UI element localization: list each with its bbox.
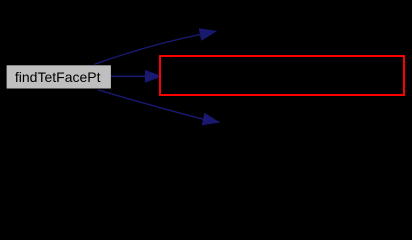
edge to red node (wire) [111,71,161,82]
svg-text:findTetFacePt: findTetFacePt [15,69,101,85]
node findTetFacePt [7,65,111,88]
node (truncated, red) [160,56,404,95]
edge to lower node (wire) [98,90,219,125]
edge to upper node (wire) [95,29,216,65]
